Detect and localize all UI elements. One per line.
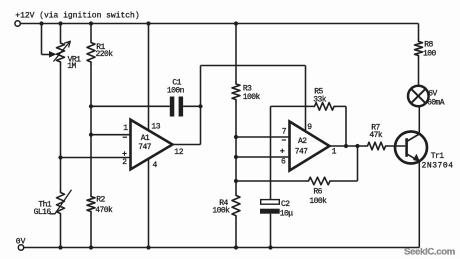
label C2 (281, 200, 290, 209)
label 747 (A1) (138, 143, 152, 152)
node R2 / 0V rail (89, 245, 93, 249)
svg-text:13: 13 (151, 122, 160, 131)
resistor R6 (307, 177, 332, 185)
op-amp A2 (290, 122, 330, 171)
svg-text:4: 4 (153, 161, 158, 170)
pin label 2 (122, 158, 127, 167)
svg-text:33k: 33k (313, 95, 327, 104)
pin label 1 (123, 124, 128, 133)
wire A2 pin 7 input (236, 136, 290, 138)
svg-text:+12V (via ignition switch): +12V (via ignition switch) (15, 11, 139, 20)
wire R1-rail to C1 (91, 105, 170, 107)
resistor R2 (87, 195, 95, 214)
wire A1 pin 4 supply (148, 158, 150, 247)
node Th1 rail / A1 pin 2 (58, 155, 62, 159)
pin label 9 (307, 123, 312, 132)
wire Th1 bottom lead (60, 216, 62, 248)
wire A2 output pin 1 (330, 145, 367, 147)
label GL16 (34, 208, 52, 217)
wire A1 output pin 12 (173, 144, 201, 146)
wire R6 up to output (357, 146, 359, 181)
label R2 (96, 195, 105, 204)
label R6 (313, 187, 322, 196)
svg-text:0V: 0V (16, 237, 26, 246)
node R5 / A2 output (344, 144, 348, 148)
wire R1 bottom to R2 (90, 64, 92, 195)
wire emitter down (418, 162, 420, 248)
svg-text:2N3704: 2N3704 (422, 161, 454, 170)
svg-text:R2: R2 (96, 195, 105, 204)
svg-text:10μ: 10μ (280, 209, 294, 218)
wire A1 pin 13 supply (148, 24, 150, 132)
wire R3 top lead (235, 24, 237, 83)
svg-text:9: 9 (307, 123, 312, 132)
svg-text:1M: 1M (67, 62, 76, 71)
pin label 7 (282, 128, 287, 137)
resistor R1 (87, 41, 95, 65)
label 6V (428, 90, 437, 99)
node top-rail / R1 (89, 21, 93, 25)
svg-text:100k: 100k (212, 206, 230, 215)
label 2N3704 (422, 161, 454, 170)
lamp 6V 60mA (408, 86, 429, 107)
svg-text:GL16: GL16 (34, 208, 52, 217)
node top-rail / VR1 (58, 21, 62, 25)
label +12V (via ignition switch) (15, 11, 139, 20)
svg-text:7: 7 (282, 128, 287, 137)
wire A1 pin 1 input (91, 134, 131, 136)
svg-text:100: 100 (423, 49, 437, 58)
label 220k (96, 50, 114, 59)
svg-text:100n: 100n (167, 86, 185, 95)
label 1M (67, 62, 76, 71)
wire collector up (418, 106, 420, 134)
svg-text:12: 12 (174, 148, 183, 157)
wire top +12V rail (20, 23, 418, 25)
label 60mA (427, 99, 445, 108)
wire top rail drop (418, 24, 420, 40)
label R8 (424, 40, 433, 49)
svg-text:A2: A2 (298, 137, 307, 146)
svg-text:R6: R6 (313, 187, 322, 196)
node top-rail / VR1 wiper branch (39, 21, 43, 25)
node C1 / A1 output / coupling (198, 104, 202, 108)
wire R5-C2 riser (270, 106, 272, 199)
wire VR1 top lead (60, 24, 62, 42)
wire R2 bottom lead (90, 214, 92, 248)
node A1 pin4 / 0V rail (146, 245, 150, 249)
label C1 (172, 79, 181, 88)
wire A1 output up to node (200, 106, 202, 144)
svg-text:47k: 47k (369, 131, 383, 140)
svg-text:Tr1: Tr1 (431, 152, 445, 161)
label 100 (R8) (423, 49, 437, 58)
resistor R3 (232, 82, 240, 102)
watermark SeekIC.com (404, 246, 455, 257)
resistor R7 (366, 142, 387, 150)
wire C2 bottom lead (270, 214, 272, 248)
op-amp A1 (131, 120, 173, 170)
wire A1 pin 2 input (61, 157, 131, 159)
thermistor Th1 (57, 191, 65, 216)
wire A2 pin 9 drop (305, 66, 307, 132)
label R4 (219, 199, 228, 208)
label 470k (95, 206, 113, 215)
label Th1 (38, 200, 52, 209)
svg-text:470k: 470k (95, 206, 113, 215)
terminal +12V input (15, 21, 20, 26)
label 47k (369, 131, 383, 140)
plus sign A2 (280, 149, 284, 153)
node C2 / 0V rail (268, 245, 272, 249)
wire R6 left (236, 180, 307, 182)
wire coupling horizontal (201, 65, 306, 67)
wire A2 pin 6 input (236, 156, 290, 158)
svg-text:R8: R8 (424, 40, 433, 49)
svg-text:100k: 100k (243, 93, 261, 102)
svg-text:220k: 220k (96, 50, 114, 59)
wire R7 to base (387, 145, 405, 147)
label A2 (298, 137, 307, 146)
wire VR1 wiper branch (42, 24, 52, 55)
thermistor line Th1 (50, 190, 72, 214)
node divider / R6-C2 wire (234, 179, 238, 183)
svg-text:6: 6 (281, 158, 286, 167)
label R7 (371, 123, 380, 132)
node top-rail / R3 (234, 21, 238, 25)
resistor R8 (415, 40, 423, 58)
wire R4 bottom lead (235, 218, 237, 248)
capacitor C2 (260, 200, 280, 214)
node divider / A2 pin 7 (234, 135, 238, 139)
svg-text:SeekIC.com: SeekIC.com (404, 246, 455, 257)
label 33k (313, 95, 327, 104)
capacitor C1 (170, 97, 183, 117)
minus sign A1 (123, 136, 127, 138)
wire R5 down to output (345, 106, 347, 146)
transistor Tr1 (395, 132, 427, 164)
terminal 0V (18, 245, 23, 250)
wire R1 top lead (90, 24, 92, 41)
label VR1 (68, 55, 82, 64)
label A1 (141, 134, 150, 143)
label 0V (16, 237, 26, 246)
svg-text:1: 1 (123, 124, 128, 133)
svg-text:6V: 6V (428, 90, 437, 99)
svg-text:747: 747 (295, 147, 309, 156)
wire VR1 bottom to Th1 (60, 64, 62, 191)
label R5 (314, 87, 323, 96)
wire R3 bottom to divider nodes (235, 102, 237, 194)
wire bottom 0V rail (24, 247, 420, 249)
label 100k (R4) (212, 206, 230, 215)
plus sign A1 (122, 151, 126, 155)
pin label 13 (151, 122, 160, 131)
svg-text:A1: A1 (141, 134, 150, 143)
pin label 4 (153, 161, 158, 170)
label 100n (167, 86, 185, 95)
label R3 (243, 85, 252, 94)
wire R5 right (336, 105, 347, 107)
node divider / A2 pin 6 (234, 155, 238, 159)
label 10u (280, 209, 294, 218)
arrow through VR1 (54, 41, 71, 61)
resistor R5 (313, 103, 336, 111)
minus sign A2 (282, 139, 286, 141)
label R1 (96, 43, 105, 52)
svg-text:100k: 100k (309, 197, 327, 206)
label 100k (R3) (243, 93, 261, 102)
wiper arrow into VR1 (49, 51, 57, 58)
label 747 (A2) (295, 147, 309, 156)
svg-text:60mA: 60mA (427, 99, 445, 108)
node R4 / 0V rail (234, 245, 238, 249)
pin label 1 (A2 out) (332, 148, 337, 157)
svg-text:1: 1 (332, 148, 337, 157)
node Th1 / 0V rail (58, 245, 62, 249)
resistor R4 (232, 193, 240, 217)
wire R6 right (332, 180, 358, 182)
variable resistor VR1 (57, 41, 65, 64)
wire coupling riser (200, 66, 202, 107)
svg-text:747: 747 (138, 143, 152, 152)
pin label 12 (174, 148, 183, 157)
svg-text:2: 2 (122, 158, 127, 167)
node top-rail / A1 pin 13 (146, 21, 150, 25)
label Tr1 (431, 152, 445, 161)
label 100k (R6) (309, 197, 327, 206)
wire R5 left (271, 105, 314, 107)
node R6 / A2 output (355, 144, 359, 148)
node R1 rail / C1 wire (89, 104, 93, 108)
node R1 rail / A1 pin 1 (89, 133, 93, 137)
wire R8 to lamp (418, 58, 420, 86)
pin label 6 (281, 158, 286, 167)
svg-text:C2: C2 (281, 200, 290, 209)
wire C1 to feedback node (183, 105, 200, 107)
